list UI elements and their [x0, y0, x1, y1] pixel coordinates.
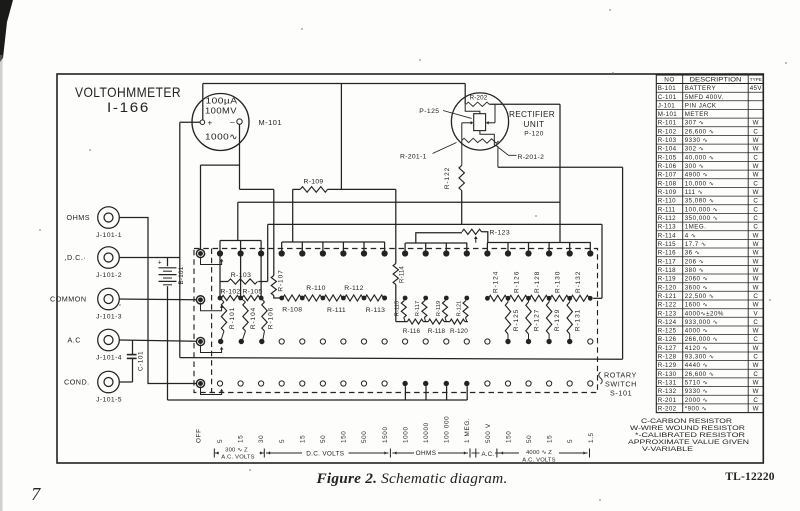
svg-text:C: C	[753, 215, 758, 222]
svg-text:R-118: R-118	[428, 328, 446, 335]
svg-text:R-119: R-119	[658, 276, 676, 283]
svg-text:PIN JACK: PIN JACK	[685, 102, 717, 109]
meter M-101 body circle	[192, 94, 249, 151]
table row R-102 26,600 &#8767;	[658, 128, 759, 135]
wire row1 contact to chain node x261	[260, 254, 262, 299]
table row R-107 4900 &#8767;	[658, 172, 759, 179]
table row R-110 35,000 &#8767;	[658, 198, 759, 205]
switch row4 contact x281	[279, 381, 284, 386]
svg-text:W: W	[753, 406, 759, 413]
table row R-121 22,500 &#8767;	[658, 293, 759, 300]
wire R-123 right lead	[482, 232, 488, 243]
svg-text:P-120: P-120	[524, 131, 544, 138]
switch row1 contact x446	[443, 250, 449, 256]
svg-text:SWITCH: SWITCH	[605, 380, 637, 389]
svg-text:R-119: R-119	[436, 301, 442, 316]
svg-text:J-101-1: J-101-1	[96, 232, 122, 239]
svg-text:R-125: R-125	[513, 309, 520, 331]
switch row4 contact x466 (battery bus)	[464, 381, 469, 386]
switch row3 contact x302	[300, 339, 305, 344]
pin jack J-101-2 (,D.C.&#183;)	[98, 247, 120, 269]
resistor R-104	[241, 298, 249, 342]
svg-text:R-107: R-107	[278, 269, 285, 291]
svg-text:B-101: B-101	[178, 266, 185, 284]
table row R-116 36 &#8767;	[658, 250, 759, 257]
svg-text:4 ∿: 4 ∿	[685, 232, 697, 239]
svg-text:150: 150	[341, 431, 348, 443]
table row R-113 1MEG.	[658, 224, 759, 231]
switch position label 15 at x549	[547, 435, 554, 443]
switch row4 contact x384	[382, 381, 387, 386]
svg-text:26,600 ∿: 26,600 ∿	[685, 371, 715, 378]
resistor R-111	[324, 295, 343, 301]
wire ladder bottom chain segment b	[423, 321, 428, 323]
border frame of schematic sheet	[57, 74, 763, 463]
wire R-109 left lead riser	[292, 189, 294, 242]
wire stub right bus to row1 contact x528	[528, 243, 530, 252]
svg-text:W: W	[753, 284, 759, 291]
svg-text:+: +	[158, 260, 163, 267]
resistor R-103	[228, 279, 258, 284]
wire battery bottom bus	[168, 399, 468, 401]
wire OHMS jack run	[119, 218, 196, 384]
wire R-107 feed vertical	[273, 189, 275, 275]
svg-text:R-109: R-109	[303, 179, 323, 186]
svg-text:380 ∿: 380 ∿	[685, 267, 705, 274]
svg-text:150: 150	[505, 431, 512, 443]
label R-116	[403, 328, 421, 335]
svg-text:100,000 ∿: 100,000 ∿	[685, 206, 719, 213]
legend W-WIRE WOUND RESISTOR	[630, 425, 746, 432]
svg-text:W: W	[753, 163, 759, 170]
junction node left chain A	[218, 296, 223, 301]
switch row1 contact x343	[340, 250, 346, 256]
resistor R-202	[466, 102, 489, 106]
svg-text:C-101: C-101	[138, 351, 145, 371]
meter + terminal pin	[200, 120, 205, 125]
label R-120	[450, 328, 468, 335]
wiper arm row3	[201, 345, 224, 353]
svg-text:1000: 1000	[402, 426, 409, 443]
svg-text:ROTARY: ROTARY	[604, 371, 637, 380]
junction node right chain x528	[526, 296, 531, 301]
wire rectifier element bottom to output	[480, 131, 498, 168]
wire stub right bus to row1 contact x507	[507, 243, 509, 252]
switch position label 150 at x343	[341, 431, 348, 443]
wiper arm row2	[201, 303, 224, 311]
svg-text:C: C	[753, 319, 758, 326]
wire top bus tap to R-109 node	[340, 84, 342, 190]
svg-text:DESCRIPTION: DESCRIPTION	[690, 77, 742, 84]
switch row1 contact x363	[361, 250, 367, 256]
switch row4 contact x425 (battery bus)	[423, 381, 428, 386]
label COND.	[64, 378, 90, 387]
svg-text:36 ∿: 36 ∿	[685, 250, 701, 257]
wire R-122 bottom lead	[461, 191, 463, 225]
switch row1 contact x261	[258, 250, 264, 256]
table row R-125 4000 &#8767;	[658, 328, 759, 335]
svg-text:W: W	[753, 388, 759, 395]
wire C-101 bottom lead	[132, 358, 134, 382]
svg-text:R-105: R-105	[658, 154, 677, 161]
svg-text:C: C	[753, 128, 758, 135]
resistor R-112	[344, 295, 363, 301]
wire meter plus vertical run	[179, 122, 181, 357]
title VOLTOHMMETER	[75, 84, 181, 100]
label P-125 with pointer	[419, 108, 471, 118]
table row R-132 9330 &#8767;	[658, 388, 759, 395]
pin jack J-101-4 (A.C)	[98, 329, 120, 351]
svg-text:TYPE: TYPE	[750, 77, 762, 82]
wire ladder bottom chain segment a	[396, 321, 408, 323]
switch row1 contact x549	[546, 250, 552, 256]
wire top horizontal run y167	[498, 166, 623, 168]
svg-text:R-126: R-126	[513, 271, 520, 293]
rotor contact row3	[196, 337, 206, 347]
meter polarity + terminal label	[207, 119, 212, 128]
wire rectifier top feed S-bend	[465, 104, 480, 113]
table row R-201 2000 &#8767;	[658, 397, 759, 404]
rotary switch rotor column dashed separator	[211, 249, 213, 393]
svg-text:W: W	[753, 328, 759, 335]
switch row1 contact x507	[505, 250, 511, 256]
table row R-202 *900 &#8767;	[658, 406, 759, 413]
svg-text:I-166: I-166	[107, 100, 150, 115]
junction node ladder x466	[464, 296, 469, 301]
label R-126	[513, 271, 520, 293]
svg-text:,D.C.·: ,D.C.·	[65, 253, 87, 262]
switch row3 contact x220 (resistor return)	[218, 339, 223, 344]
switch position label 1500 at x384	[382, 426, 389, 443]
wire right group bus	[488, 242, 591, 244]
wire rectifier left vertical to R-122	[461, 123, 463, 166]
junction node middle chain x281	[279, 296, 284, 301]
svg-text:R-103: R-103	[231, 272, 252, 279]
svg-text:R-101: R-101	[229, 307, 236, 329]
table row R-112 350,000 &#8767;	[658, 215, 759, 222]
svg-text:W: W	[753, 258, 759, 265]
switch row3 contact x507 (resistor return)	[505, 339, 510, 344]
wiper arm row1	[201, 257, 224, 265]
wire stub right bus to row1 contact x487	[486, 243, 488, 252]
svg-text:R-130: R-130	[554, 271, 561, 293]
switch row4 contact x549	[547, 381, 552, 386]
wire stub mid-right bus to row1 contact x446	[445, 243, 447, 251]
wire R-123 left riser	[416, 233, 462, 243]
svg-text:R-118: R-118	[658, 267, 676, 274]
svg-text:4440 ∿: 4440 ∿	[685, 362, 709, 369]
svg-text:R-112: R-112	[658, 215, 676, 222]
wire bus stub up to row4 contact x467	[466, 386, 468, 400]
table row R-101 307 &#8767;	[658, 120, 759, 127]
wire stub middle bus to row1 contact x302	[301, 242, 303, 251]
svg-text:300 ∿: 300 ∿	[685, 163, 705, 170]
svg-text:W: W	[753, 362, 759, 369]
legend V-VARIABLE	[642, 446, 693, 453]
svg-text:COND.: COND.	[64, 378, 90, 387]
switch position label 50 at x529	[526, 435, 533, 443]
svg-text:R-129: R-129	[658, 362, 677, 369]
label R-117	[415, 301, 421, 316]
switch position label 5 at x570	[567, 439, 574, 443]
pin jack J-101-1 (OHMS)	[98, 207, 120, 229]
table row R-130 26,600 &#8767;	[658, 371, 759, 378]
table row R-129 4440 &#8767;	[658, 362, 759, 369]
switch row4 contact x487	[485, 381, 490, 386]
switch row1 contact x528	[525, 250, 531, 256]
resistor R-202 value label	[470, 95, 488, 102]
svg-text:A.C: A.C	[68, 336, 81, 345]
figure caption	[315, 471, 507, 487]
svg-text:40,000 ∿: 40,000 ∿	[685, 154, 715, 161]
switch row1 contact x425	[423, 250, 429, 256]
svg-text:R-105: R-105	[242, 289, 262, 296]
svg-text:UNIT: UNIT	[523, 120, 544, 129]
svg-text:45V: 45V	[750, 85, 763, 92]
svg-text:5710 ∿: 5710 ∿	[685, 380, 709, 387]
svg-text:R-121: R-121	[658, 293, 677, 300]
svg-text:W-WIRE WOUND RESISTOR: W-WIRE WOUND RESISTOR	[630, 425, 746, 432]
svg-text:1000∿: 1000∿	[205, 132, 238, 142]
resistor R-118	[428, 319, 444, 324]
junction node ladder x446	[444, 296, 449, 301]
svg-text:R-124: R-124	[493, 271, 500, 293]
label R-103	[231, 272, 252, 279]
table row R-126 266,000 &#8767;	[658, 336, 759, 343]
label R-201-1 with pointer	[400, 143, 457, 161]
svg-text:R-201-1: R-201-1	[400, 154, 427, 161]
svg-text:J-101: J-101	[658, 102, 675, 109]
wire ladder bottom chain segment d	[465, 321, 468, 323]
switch row3 contact x322	[320, 339, 325, 344]
table row R-114 4 &#8767;	[658, 232, 759, 239]
table row B-101 BATTERY	[658, 85, 763, 92]
wire bus stub up to row4 contact x405	[404, 386, 406, 400]
meter value label 1000 ohms	[205, 132, 238, 142]
resistor R-117	[422, 298, 427, 322]
svg-text:R-117: R-117	[415, 301, 421, 316]
resistor R-113	[365, 295, 384, 301]
svg-text:15: 15	[547, 435, 554, 443]
svg-text:R-113: R-113	[366, 307, 386, 314]
svg-text:P-125: P-125	[419, 108, 439, 115]
range bracket A.C. VOLTS 300	[214, 447, 264, 460]
switch position label 10000 at x426	[423, 422, 430, 443]
pin jack J-101-3 (COMMON)	[98, 288, 120, 310]
resistor R-121	[463, 298, 468, 322]
svg-text:4000 ∿ Z: 4000 ∿ Z	[526, 450, 552, 456]
wire rectifier output right to riser	[489, 103, 560, 105]
label R-102	[220, 289, 240, 296]
label R-127	[534, 309, 541, 331]
switch row3 contact x466	[464, 339, 469, 344]
wire left group bus	[220, 240, 261, 242]
switch row3 contact x343	[341, 339, 346, 344]
label R-129	[554, 309, 561, 331]
svg-text:J-101-2: J-101-2	[96, 272, 122, 279]
svg-text:C: C	[753, 206, 758, 213]
switch row3 contact x261 (resistor return)	[259, 339, 264, 344]
switch row4 contact x322	[320, 381, 325, 386]
svg-text:R-129: R-129	[554, 309, 561, 331]
switch position label 1 MEG. at x467	[464, 418, 471, 443]
svg-text:V-VARIABLE: V-VARIABLE	[642, 446, 693, 453]
wire R-103 left lead	[220, 281, 228, 283]
junction node middle chain x363	[362, 296, 367, 301]
svg-text:100MV: 100MV	[205, 106, 237, 116]
svg-text:35,000 ∿: 35,000 ∿	[685, 198, 715, 205]
table row R-105 40,000 &#8767;	[658, 154, 759, 161]
svg-text:A.C. VOLTS: A.C. VOLTS	[221, 455, 254, 461]
svg-text:500: 500	[361, 431, 368, 443]
svg-text:RECTIFIER: RECTIFIER	[509, 110, 555, 119]
svg-text:M-101: M-101	[658, 111, 677, 118]
meter value label 100MV	[205, 106, 237, 116]
label R-131	[575, 309, 582, 331]
title I-166	[107, 100, 150, 115]
switch row4 contact x507	[505, 381, 510, 386]
svg-text:J-101-5: J-101-5	[96, 397, 122, 404]
label R-110	[306, 285, 326, 292]
switch row1 contact x466	[464, 250, 470, 256]
table row R-120 3600 &#8767;	[658, 284, 759, 291]
resistor R-105	[242, 295, 260, 300]
svg-text:R-112: R-112	[344, 285, 364, 292]
range bracket 4000 A.C. VOLTS	[499, 449, 590, 464]
battery + polarity mark	[158, 260, 163, 267]
svg-text:R-108: R-108	[282, 307, 302, 314]
svg-text:R-201-2: R-201-2	[518, 154, 545, 161]
svg-text:R-111: R-111	[327, 307, 346, 314]
switch position label 30 at x261	[258, 435, 265, 443]
wire stub middle bus to row1 contact x322	[322, 242, 324, 251]
meter reference label M-101	[259, 118, 282, 127]
svg-text:R-110: R-110	[306, 285, 326, 292]
wire stub mid-right bus to row1 contact x405	[404, 243, 406, 251]
svg-text:R-125: R-125	[658, 328, 677, 335]
label R-201-2 with pointer	[499, 148, 545, 161]
wire stub mid-right bus to row1 contact x425	[425, 243, 427, 251]
wire riser to A.C. rectified bus	[559, 104, 561, 242]
switch row1 contact x405	[402, 250, 408, 256]
switch row3 contact x240 (resistor return)	[239, 339, 244, 344]
wire COMMON jack run	[119, 298, 196, 301]
junction node middle chain x302	[300, 296, 305, 301]
svg-text:93,300 ∿: 93,300 ∿	[685, 354, 715, 361]
resistor R-119	[443, 298, 448, 322]
table row R-124 933,000 &#8767;	[658, 319, 759, 326]
svg-text:R-130: R-130	[658, 371, 677, 378]
svg-text:50: 50	[526, 435, 533, 443]
meter - terminal pin	[237, 119, 242, 124]
wire stub left bus to row1 contact x240	[240, 241, 242, 252]
svg-text:R-127: R-127	[534, 309, 541, 331]
svg-text:2060 ∿: 2060 ∿	[685, 276, 709, 283]
table row R-128 93,300 &#8767;	[658, 354, 759, 361]
svg-text:5: 5	[279, 439, 286, 443]
label P-120	[524, 131, 544, 138]
switch position label 5 at x281	[279, 439, 286, 443]
svg-text:W: W	[753, 241, 759, 248]
svg-text:9330 ∿: 9330 ∿	[685, 137, 709, 144]
svg-text:R-110: R-110	[658, 198, 676, 205]
switch position label 500 V at x487	[485, 423, 492, 443]
rotor contact row2	[196, 295, 206, 305]
svg-text:111 ∿: 111 ∿	[685, 189, 704, 196]
legend *-CALIBRATED RESISTOR	[635, 432, 746, 439]
svg-text:10,000 ∿: 10,000 ∿	[685, 180, 715, 187]
range bracket D.C. VOLTS	[266, 449, 390, 458]
switch row3 contact x446	[444, 339, 449, 344]
wire middle group bus	[282, 241, 385, 243]
junction node left chain C	[259, 296, 264, 301]
svg-text:COMMON: COMMON	[50, 295, 87, 304]
svg-text:350,000 ∿: 350,000 ∿	[685, 215, 719, 222]
svg-text:4900 ∿: 4900 ∿	[685, 172, 709, 179]
resistor R-124	[488, 295, 507, 301]
wire bus stub up to row4 contact x446	[446, 386, 448, 400]
svg-text:A.C.: A.C.	[481, 451, 494, 458]
table row J-101 PIN JACK	[658, 102, 717, 109]
switch row1 contact x322	[320, 250, 326, 256]
wire rectifier right arm into element	[486, 104, 495, 124]
wire D.C. jack run	[119, 257, 180, 259]
svg-text:C: C	[753, 224, 758, 231]
svg-text:C: C	[753, 371, 758, 378]
resistor R-115	[401, 298, 406, 322]
table row R-123 4000&#8767;&#177;20%	[658, 310, 759, 317]
svg-text:R-106: R-106	[268, 307, 275, 329]
label OHMS	[67, 213, 91, 222]
svg-text:206 ∿: 206 ∿	[685, 258, 705, 265]
table row R-131 5710 &#8767;	[658, 380, 759, 387]
svg-text:VOLTOHMMETER: VOLTOHMMETER	[75, 84, 181, 100]
svg-text:W: W	[753, 250, 759, 257]
svg-text:C-101: C-101	[658, 94, 677, 101]
svg-text:17.7 ∿: 17.7 ∿	[685, 241, 707, 248]
label R-113	[366, 307, 386, 314]
switch row4 contact x240	[238, 381, 243, 386]
svg-text:3600 ∿: 3600 ∿	[685, 284, 709, 291]
svg-text:R-128: R-128	[534, 271, 541, 293]
svg-text:C-CARBON RESISTOR: C-CARBON RESISTOR	[641, 418, 732, 425]
svg-text:W: W	[753, 120, 759, 127]
switch position label 150 at x508	[505, 431, 512, 443]
switch row1 contact x220	[217, 250, 223, 256]
svg-text:NO: NO	[664, 77, 675, 84]
wire bus H224	[268, 223, 602, 225]
rectifier element P-125 rectangle	[474, 114, 486, 131]
junction node middle chain x384	[382, 296, 387, 301]
svg-text:R-132: R-132	[575, 271, 582, 293]
svg-text:M-101: M-101	[259, 118, 282, 127]
wire H224 drop to R-103	[267, 224, 269, 281]
rotary switch S-101 dashed enclosure	[194, 249, 598, 393]
label R-123	[490, 230, 511, 237]
switch position label 5 at x220	[217, 439, 224, 443]
label A.C	[68, 336, 81, 345]
junction node right chain x549	[547, 296, 552, 301]
svg-text:R-116: R-116	[658, 250, 676, 257]
label R-107	[278, 269, 285, 291]
wire stub right bus to row1 contact x569	[569, 243, 571, 252]
resistor R-108	[283, 295, 302, 301]
svg-text:R-106: R-106	[658, 163, 677, 170]
svg-text:15: 15	[299, 435, 306, 443]
wire R-109 right to R-114 feed	[328, 188, 396, 190]
svg-text:C: C	[753, 154, 758, 161]
legend C-CARBON RESISTOR	[641, 418, 732, 425]
